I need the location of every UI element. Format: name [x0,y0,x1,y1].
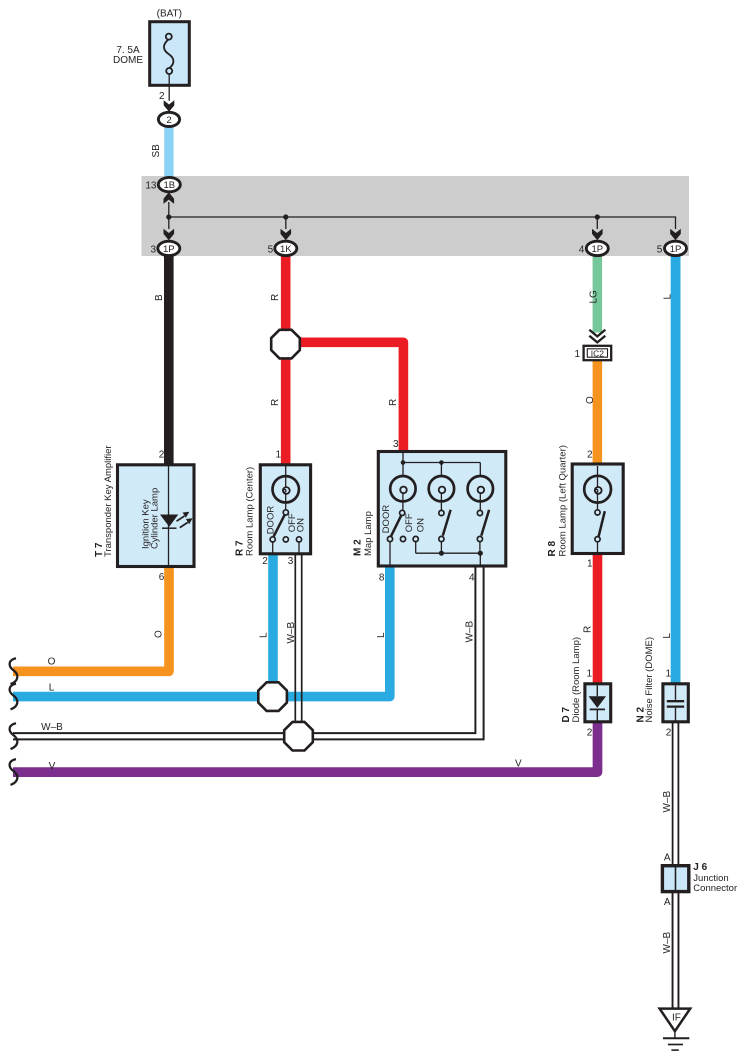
svg-text:R: R [582,626,593,633]
svg-text:1: 1 [574,349,580,360]
svg-text:V: V [49,761,56,772]
svg-text:5: 5 [268,244,274,255]
svg-text:IC2: IC2 [591,349,605,359]
svg-text:O: O [48,657,56,668]
svg-text:2: 2 [587,449,593,460]
svg-text:O: O [585,396,596,404]
svg-text:5: 5 [657,244,663,255]
svg-text:1: 1 [587,559,593,570]
svg-text:A: A [664,897,671,908]
svg-text:J 6: J 6 [693,862,707,873]
svg-text:W–B: W–B [286,622,297,644]
svg-text:3: 3 [288,556,294,567]
svg-text:2: 2 [166,115,171,126]
svg-text:IF: IF [672,1013,681,1024]
svg-text:2: 2 [262,556,268,567]
svg-text:4: 4 [579,244,585,255]
svg-text:L: L [662,633,673,639]
svg-text:B: B [154,294,165,301]
svg-text:2: 2 [666,728,672,739]
svg-text:1P: 1P [591,244,603,255]
svg-text:ON: ON [415,518,426,532]
svg-text:4: 4 [469,572,475,583]
svg-text:1P: 1P [163,244,175,255]
svg-text:1P: 1P [670,244,682,255]
svg-text:1B: 1B [163,180,175,191]
svg-text:W–B: W–B [41,722,63,733]
svg-text:SB: SB [151,144,162,158]
svg-text:L: L [663,294,674,300]
svg-text:3: 3 [150,244,156,255]
svg-text:Room Lamp (Center): Room Lamp (Center) [245,467,256,556]
svg-text:R: R [270,294,281,301]
svg-text:Cylinder Lamp: Cylinder Lamp [150,488,161,549]
svg-text:LG: LG [589,290,600,304]
svg-text:L: L [376,632,387,638]
svg-text:R 8: R 8 [547,541,558,557]
svg-text:W–B: W–B [662,791,673,813]
svg-text:6: 6 [159,572,165,583]
svg-text:A: A [664,852,671,863]
svg-text:2: 2 [159,91,165,102]
svg-text:Transponder Key Amplifier: Transponder Key Amplifier [103,445,114,557]
svg-text:W–B: W–B [662,932,673,954]
svg-text:Map Lamp: Map Lamp [363,511,374,556]
svg-text:3: 3 [393,439,399,450]
svg-text:R: R [388,399,399,406]
svg-text:O: O [154,630,165,638]
svg-text:13: 13 [145,181,157,192]
svg-text:V: V [515,758,522,769]
svg-text:ON: ON [296,518,307,532]
svg-text:1: 1 [275,450,281,461]
svg-text:DOOR: DOOR [266,506,277,535]
svg-text:2: 2 [587,727,593,738]
svg-text:2: 2 [159,450,165,461]
svg-text:1: 1 [586,668,592,679]
svg-text:Diode (Room Lamp): Diode (Room Lamp) [571,637,582,723]
svg-text:OFF: OFF [404,513,415,532]
svg-text:L: L [259,632,270,638]
svg-text:(BAT): (BAT) [157,9,182,20]
svg-text:DOME: DOME [113,55,143,66]
svg-text:8: 8 [379,572,385,583]
svg-text:DOOR: DOOR [381,505,392,534]
svg-text:1K: 1K [280,244,292,255]
svg-text:1: 1 [665,668,671,679]
svg-text:Noise Filter (DOME): Noise Filter (DOME) [644,637,655,723]
svg-text:R: R [270,399,281,406]
svg-text:Room Lamp (Left Quarter): Room Lamp (Left Quarter) [558,445,569,556]
svg-text:Connector: Connector [693,883,737,894]
svg-text:W–B: W–B [464,621,475,643]
svg-text:L: L [49,682,55,693]
